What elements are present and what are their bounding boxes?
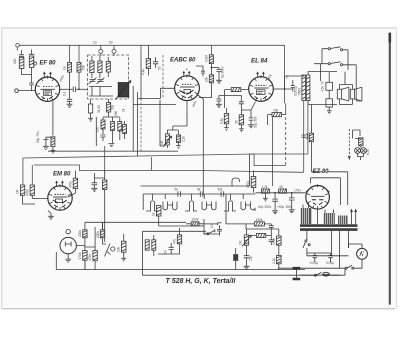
wire: long bus y165 with jog <box>34 101 304 173</box>
resistor R26 <box>93 246 97 270</box>
svg-text:6,3v: 6,3v <box>366 149 370 155</box>
pilot lamp LP2 <box>361 148 367 154</box>
resistor R34 470k <box>277 229 282 252</box>
switch wafer contact c <box>185 201 197 211</box>
wire: OT secondary to speakers <box>308 72 337 105</box>
svg-text:0,1µ: 0,1µ <box>220 118 224 124</box>
svg-text:7n: 7n <box>286 75 290 79</box>
svg-text:NB: NB <box>274 109 278 113</box>
wire: bus right corner down to EL84 <box>284 45 286 103</box>
svg-text:4,5n 70: 4,5n 70 <box>321 81 325 92</box>
resistor R2 screen EF80 <box>68 63 72 73</box>
tube EF80 envelope <box>35 77 59 101</box>
wire: AF top rail <box>85 222 186 230</box>
wire: left drops to EM80 resistors <box>23 158 32 185</box>
ground osc cluster <box>109 144 115 147</box>
wire: tone bus upper <box>141 154 250 186</box>
capacitor C12 on B+ <box>302 134 308 140</box>
power transformer winding W2 <box>324 210 335 225</box>
tube EABC80 pin ticks <box>176 74 198 99</box>
filter resistor R21 60 <box>279 189 287 193</box>
component K below box left <box>88 99 93 121</box>
wire: mains stub <box>296 270 298 278</box>
tube EM80 internal electrodes <box>53 194 68 207</box>
terminal tail <box>16 47 18 50</box>
mains terminal marks <box>293 268 301 279</box>
svg-text:EZ 80: EZ 80 <box>313 169 330 175</box>
wire: lower mains rail <box>300 268 345 275</box>
wire: grid coupling from below <box>224 90 226 108</box>
coil L4 <box>106 57 110 77</box>
wire: pair to EABC grid upper <box>133 98 176 156</box>
node plate junction <box>78 88 80 90</box>
power transformer T1 core bar upper <box>300 224 358 227</box>
coupling capacitor C3 <box>73 87 75 92</box>
svg-text:470k: 470k <box>26 189 30 196</box>
svg-text:0,3M: 0,3M <box>205 55 209 62</box>
svg-text:175v: 175v <box>294 189 301 193</box>
pilot lamp bracket <box>353 130 361 139</box>
ground EZ80 area <box>263 193 268 201</box>
svg-text:1k: 1k <box>63 66 67 70</box>
wire: switch feed vertical <box>321 49 323 81</box>
switch wafer contact f <box>241 202 255 212</box>
border frame top <box>2 27 397 29</box>
wire: EZ80 anode feeds <box>306 189 330 192</box>
line capacitor C26 0.05u <box>313 253 317 260</box>
capacitor C21 <box>169 243 174 254</box>
resistor R5 below box <box>107 99 111 117</box>
pilot lamp resistor R19 <box>359 138 363 146</box>
antenna coil L1 <box>29 50 37 91</box>
wire: C15 top <box>94 171 104 179</box>
wire: R10 down to plate wire <box>199 83 211 98</box>
wire: cap rail <box>307 253 349 262</box>
jack hook J1 <box>232 178 240 187</box>
output transformer OT1 winding b <box>306 75 310 101</box>
electrolytic C7 8u <box>216 70 222 84</box>
wire: pot top link <box>167 108 187 130</box>
wire: mid cluster verticals <box>158 219 204 254</box>
wire: top B+ bus <box>19 44 284 46</box>
tube EL84 pin ticks <box>250 75 272 101</box>
AF choke T2 winding a <box>145 240 149 250</box>
svg-text:10k: 10k <box>117 246 121 252</box>
svg-text:1M: 1M <box>16 189 20 194</box>
wire: speaker bottom return <box>339 104 352 106</box>
antenna coupling capacitor C1 <box>19 50 24 57</box>
svg-text:47k: 47k <box>173 238 177 244</box>
svg-text:26: 26 <box>234 120 238 124</box>
wire: EL84 plate to OT <box>273 88 284 90</box>
svg-text:50: 50 <box>109 41 113 45</box>
svg-text:220k: 220k <box>78 230 82 237</box>
top B+ bus terminal <box>16 44 20 48</box>
wire: bus drop to EABC plate resistor <box>210 45 212 55</box>
tube EZ80 envelope <box>306 186 330 210</box>
motor M1 <box>357 244 368 264</box>
wire: EZ80 cathode down <box>317 209 319 224</box>
resistor R30 top <box>186 222 204 226</box>
svg-text:50k: 50k <box>218 188 224 192</box>
wire: cap C3 to IF box <box>76 88 87 90</box>
svg-text:220: 220 <box>13 58 17 64</box>
svg-text:+50µ 350v: +50µ 350v <box>277 205 292 209</box>
svg-text:5n: 5n <box>164 250 168 254</box>
resistor R11 det load <box>224 108 229 131</box>
wire: transformer below drops <box>307 231 349 268</box>
node screen junction <box>284 88 286 90</box>
tube EF80 pin ticks <box>37 76 59 102</box>
tube EABC80 envelope <box>175 76 200 101</box>
series capacitor C22 <box>217 223 222 234</box>
power transformer T1 core bar lower <box>300 228 358 231</box>
tube EZ80 pin ticks <box>307 184 328 209</box>
svg-text:470k: 470k <box>78 252 82 259</box>
tube EL84 heater arrows <box>257 72 265 77</box>
node trimmer B on bus <box>112 49 116 53</box>
oscillator resistor R38 <box>123 121 127 139</box>
capacitor C15 <box>91 178 97 191</box>
wire: EF80 cathode down <box>52 101 54 135</box>
series capacitor C20 <box>221 191 224 197</box>
svg-text:8µ 300v: 8µ 300v <box>221 66 225 78</box>
wire: EABC return loop <box>161 88 175 98</box>
svg-text:EM 80: EM 80 <box>53 172 71 178</box>
IF2 resistor R8 (hatched) <box>146 45 150 75</box>
wire: lamps link <box>358 146 364 160</box>
wire: osc cluster top link <box>96 117 120 146</box>
tube EABC80 heater arrows <box>183 72 190 77</box>
svg-text:10: 10 <box>93 41 97 45</box>
svg-text:0,1: 0,1 <box>63 91 67 96</box>
wire: tone column x311 <box>311 105 322 172</box>
line capacitor C27 0.05u <box>328 253 332 260</box>
wire: EF80 plate to coupling cap <box>60 88 73 90</box>
IF2 shield dashed line <box>162 55 164 99</box>
wire: bus drop at x141 <box>140 45 142 55</box>
wire: cathode link <box>241 102 255 114</box>
wire: trimmer B stub <box>113 45 115 56</box>
wire: feedback link <box>219 234 221 236</box>
resistor R28 <box>121 234 126 258</box>
wire: band crossover x105 <box>104 146 106 173</box>
resistor R13 <box>176 131 181 149</box>
svg-text:470k: 470k <box>69 181 73 188</box>
power transformer winding W1 <box>301 203 312 224</box>
wire: dashed shield drop <box>140 99 142 154</box>
switch S1a <box>322 47 348 51</box>
switch wafer contact b <box>163 202 177 210</box>
electrolytic C16 50u <box>272 193 278 214</box>
capacitor C4 cathode bypass <box>43 137 53 149</box>
svg-text:5k: 5k <box>197 188 201 192</box>
resistor R29 <box>177 228 181 250</box>
node decouple junction <box>211 67 213 69</box>
svg-text:100k: 100k <box>256 218 263 222</box>
oscillator cluster: resistor R6 <box>101 117 105 134</box>
phono pickup jack circle <box>60 237 76 253</box>
wire: mid vertical x133 <box>133 86 137 99</box>
wire: switch right drops <box>348 50 362 101</box>
wire: screen drop + bypass cap C2 <box>69 72 71 99</box>
resistor R4 cathode EF80 <box>51 137 56 153</box>
wire: plate resistor down to plate line <box>78 72 80 89</box>
node B+ b <box>291 192 293 194</box>
capacitor C11 0.005u <box>291 80 295 92</box>
loudspeaker LS1 <box>337 85 349 105</box>
switch S5 <box>315 272 322 276</box>
svg-text:0,05µ: 0,05µ <box>326 261 334 265</box>
wire: trimmer A stub <box>100 45 102 56</box>
grid stopper resistor R14 <box>225 88 249 92</box>
tube EL84 internal electrodes <box>254 85 269 99</box>
svg-text:50µ 350v: 50µ 350v <box>258 205 272 209</box>
wire: zigzag to screen feed <box>250 101 308 166</box>
svg-text:EL 84: EL 84 <box>251 58 268 65</box>
tube EABC80 internal electrodes <box>180 84 195 98</box>
ground under C2 <box>67 104 73 107</box>
resistor R17 target <box>68 171 78 198</box>
AF choke T2 winding b <box>152 235 156 256</box>
svg-text:EABC 80: EABC 80 <box>170 58 196 64</box>
ground phono <box>65 254 71 262</box>
wire: AF box verticals <box>143 231 340 275</box>
tuner shield box (dashed) <box>88 55 129 99</box>
wire: det top link <box>211 96 241 98</box>
filter resistor R20 1.2k <box>261 189 269 193</box>
svg-text:1M: 1M <box>239 240 243 245</box>
wire: plate resistor chain <box>210 64 212 75</box>
ground EM80 <box>48 211 54 220</box>
dashed heater arrow <box>348 129 350 158</box>
tone capacitor C13 <box>326 72 333 99</box>
feedback resistor R36 <box>268 113 286 126</box>
resistor R25 <box>83 247 87 270</box>
page right dark edge line <box>389 33 391 305</box>
wire: x141 vertical through tuner <box>140 55 142 99</box>
tube EL84 envelope <box>249 77 274 102</box>
svg-text:100k: 100k <box>192 218 199 222</box>
tone resistor R37 <box>309 133 313 142</box>
series capacitor C19 <box>200 191 203 197</box>
tube EF80 heater arrows <box>43 72 51 77</box>
wire: box internal bottom <box>89 87 113 97</box>
oscillator cluster: padder cap C5 <box>101 135 106 141</box>
IF2 capacitor C6 <box>153 57 158 68</box>
switch S2 knob <box>111 247 115 251</box>
wire: EM80 grid left <box>32 198 48 200</box>
tuning gang capacitor CV1 <box>116 81 132 100</box>
tube EZ80 internal electrodes <box>311 196 325 205</box>
border frame bottom <box>2 308 396 310</box>
wire: bottom mid links <box>203 165 278 234</box>
secondary lead arrow a <box>350 210 352 224</box>
volume pot P1 <box>163 130 172 148</box>
svg-text:470k: 470k <box>272 238 276 245</box>
loudspeaker LS2 <box>350 85 362 105</box>
svg-text:2k: 2k <box>122 108 126 112</box>
tube EM80 envelope <box>48 186 72 210</box>
wire: bus drop to R screen EF80 <box>69 45 71 62</box>
electrolytic C8 small <box>196 66 205 77</box>
ground under R28 <box>121 258 126 261</box>
svg-text:10k: 10k <box>205 76 209 82</box>
switch wafer contact a <box>146 201 158 211</box>
svg-text:EF 80: EF 80 <box>40 61 57 67</box>
wire: tone chain rail <box>143 194 255 210</box>
svg-text:470k: 470k <box>88 254 92 261</box>
page right dark edge top accent <box>388 33 391 43</box>
wire: EZ80 loop inner <box>311 178 341 205</box>
capacitor C9 det <box>216 96 222 108</box>
power transformer winding W3 <box>338 216 348 225</box>
svg-text:4: 4 <box>186 68 188 72</box>
resistor R35 <box>277 252 282 270</box>
svg-text:T 528 H, G, K, Terta/II: T 528 H, G, K, Terta/II <box>166 278 237 285</box>
svg-text:100k: 100k <box>96 231 100 238</box>
wire: node to filter cap <box>211 67 219 69</box>
phono index circle <box>66 229 70 233</box>
tube EM80 heater arrows <box>56 181 64 186</box>
resistor R31 <box>195 222 202 226</box>
capacitor C23 <box>269 224 274 236</box>
svg-text:60: 60 <box>280 185 284 189</box>
svg-text:31 85: 31 85 <box>97 105 101 113</box>
svg-text:5k: 5k <box>175 188 179 192</box>
oscillator cluster: resistor R7 <box>111 117 115 143</box>
switch S1b <box>314 62 348 66</box>
wire: bottom left bus <box>56 252 305 270</box>
tone capacitor C14 <box>326 99 333 114</box>
wire: blob stub <box>235 248 237 270</box>
wire: bottom mains rail <box>278 267 345 269</box>
svg-text:5600: 5600 <box>298 88 302 95</box>
wire: band crossover x151 <box>151 157 153 171</box>
switch S4 <box>345 265 354 269</box>
electrolytic C17 50u <box>289 193 295 213</box>
wire: phono link <box>76 227 95 247</box>
capacitor C2 <box>67 99 72 104</box>
tube EM80 pin ticks <box>49 184 71 210</box>
svg-text:1,2k: 1,2k <box>262 185 268 189</box>
wire: long bus y157 <box>23 154 254 158</box>
border frame right <box>396 28 398 309</box>
wire: top link OT <box>285 75 304 89</box>
wire: screen to tone cap <box>285 85 293 89</box>
resistor R16 470k <box>30 185 34 199</box>
svg-text:0,1µ: 0,1µ <box>141 69 145 75</box>
wire: grid input to tube <box>18 90 35 92</box>
svg-text:50: 50 <box>158 66 162 70</box>
svg-text:50k: 50k <box>82 64 86 70</box>
svg-text:460: 460 <box>114 110 118 116</box>
grid input terminal <box>15 89 19 93</box>
coil L2 <box>90 56 94 78</box>
svg-text:30k: 30k <box>111 104 115 110</box>
resistor R18 <box>103 173 107 242</box>
svg-text:2,2k: 2,2k <box>272 258 276 264</box>
resistor R23 <box>251 171 256 193</box>
volume pot P2 <box>242 229 251 254</box>
resistor R33 10k <box>249 234 271 238</box>
wire: EABC cathode down x203 <box>196 94 203 165</box>
capacitor C10 <box>239 97 244 107</box>
tube EF80 internal electrodes <box>41 87 56 100</box>
wire: R36 drop to tone bus <box>272 117 274 186</box>
trimmer capacitor T2 <box>97 78 105 85</box>
svg-text:1k: 1k <box>151 212 155 216</box>
svg-text:1M: 1M <box>160 140 164 145</box>
series capacitor C18 <box>178 191 181 197</box>
svg-text:25µ: 25µ <box>249 255 253 261</box>
phono pin marks <box>65 242 71 247</box>
cathode capacitor C28 EL84 <box>248 113 254 128</box>
wire: B+ line y193 <box>256 192 306 194</box>
coil L3 <box>98 56 102 78</box>
wire: left loop under tube <box>160 100 165 146</box>
antenna resistor R1 (hatched) <box>19 58 29 75</box>
pilot lamp LP1 <box>355 148 361 154</box>
node trimmer A on bus <box>99 49 103 53</box>
svg-text:50µ 50v: 50µ 50v <box>254 116 258 128</box>
switch wafer contact d <box>202 202 216 210</box>
wire: EABC grid down x187 <box>186 101 188 108</box>
oscillator cluster: coil L5 <box>118 118 122 140</box>
wire: motor loop <box>349 244 363 268</box>
wire: bus drop to R plate EF80 <box>78 45 80 62</box>
resistor R9 EABC plate <box>209 55 213 64</box>
resistor R3 plate EF80 <box>77 63 81 73</box>
svg-text:50µ 75v: 50µ 75v <box>36 131 40 143</box>
output transformer OT1 winding a <box>302 75 306 101</box>
resistor R22 chain <box>156 206 161 227</box>
resistor R15 1M <box>20 185 35 204</box>
svg-text:0,05µ: 0,05µ <box>310 261 318 265</box>
resistor R27 <box>100 223 104 245</box>
switch S6 contact <box>203 229 215 235</box>
switch S2 phono <box>103 244 111 257</box>
svg-text:2,2k: 2,2k <box>182 136 186 142</box>
capacitor C24 <box>269 236 274 246</box>
resistor R10 decoupling <box>209 75 213 83</box>
wire: contact stubs <box>153 194 244 200</box>
node B+ a <box>274 192 276 194</box>
dark component blob <box>233 254 238 261</box>
electrolytic C25 25u <box>244 254 250 270</box>
mains switch S3 <box>303 240 310 256</box>
wire: speaker top feed <box>339 72 352 85</box>
resistor R32 100k <box>246 222 271 226</box>
switch wafer contact e <box>224 201 236 211</box>
secondary lead arrow b <box>355 210 357 224</box>
wire: heater line y151 <box>48 150 178 152</box>
svg-text:470k: 470k <box>246 181 250 188</box>
trimmer capacitor T1 <box>89 78 97 85</box>
fuse F1 <box>323 272 330 276</box>
border frame left <box>1 28 3 309</box>
wire: EZ80 loop outer <box>327 172 348 205</box>
resistor R24 <box>83 223 87 248</box>
resistor R12 <box>239 107 244 132</box>
